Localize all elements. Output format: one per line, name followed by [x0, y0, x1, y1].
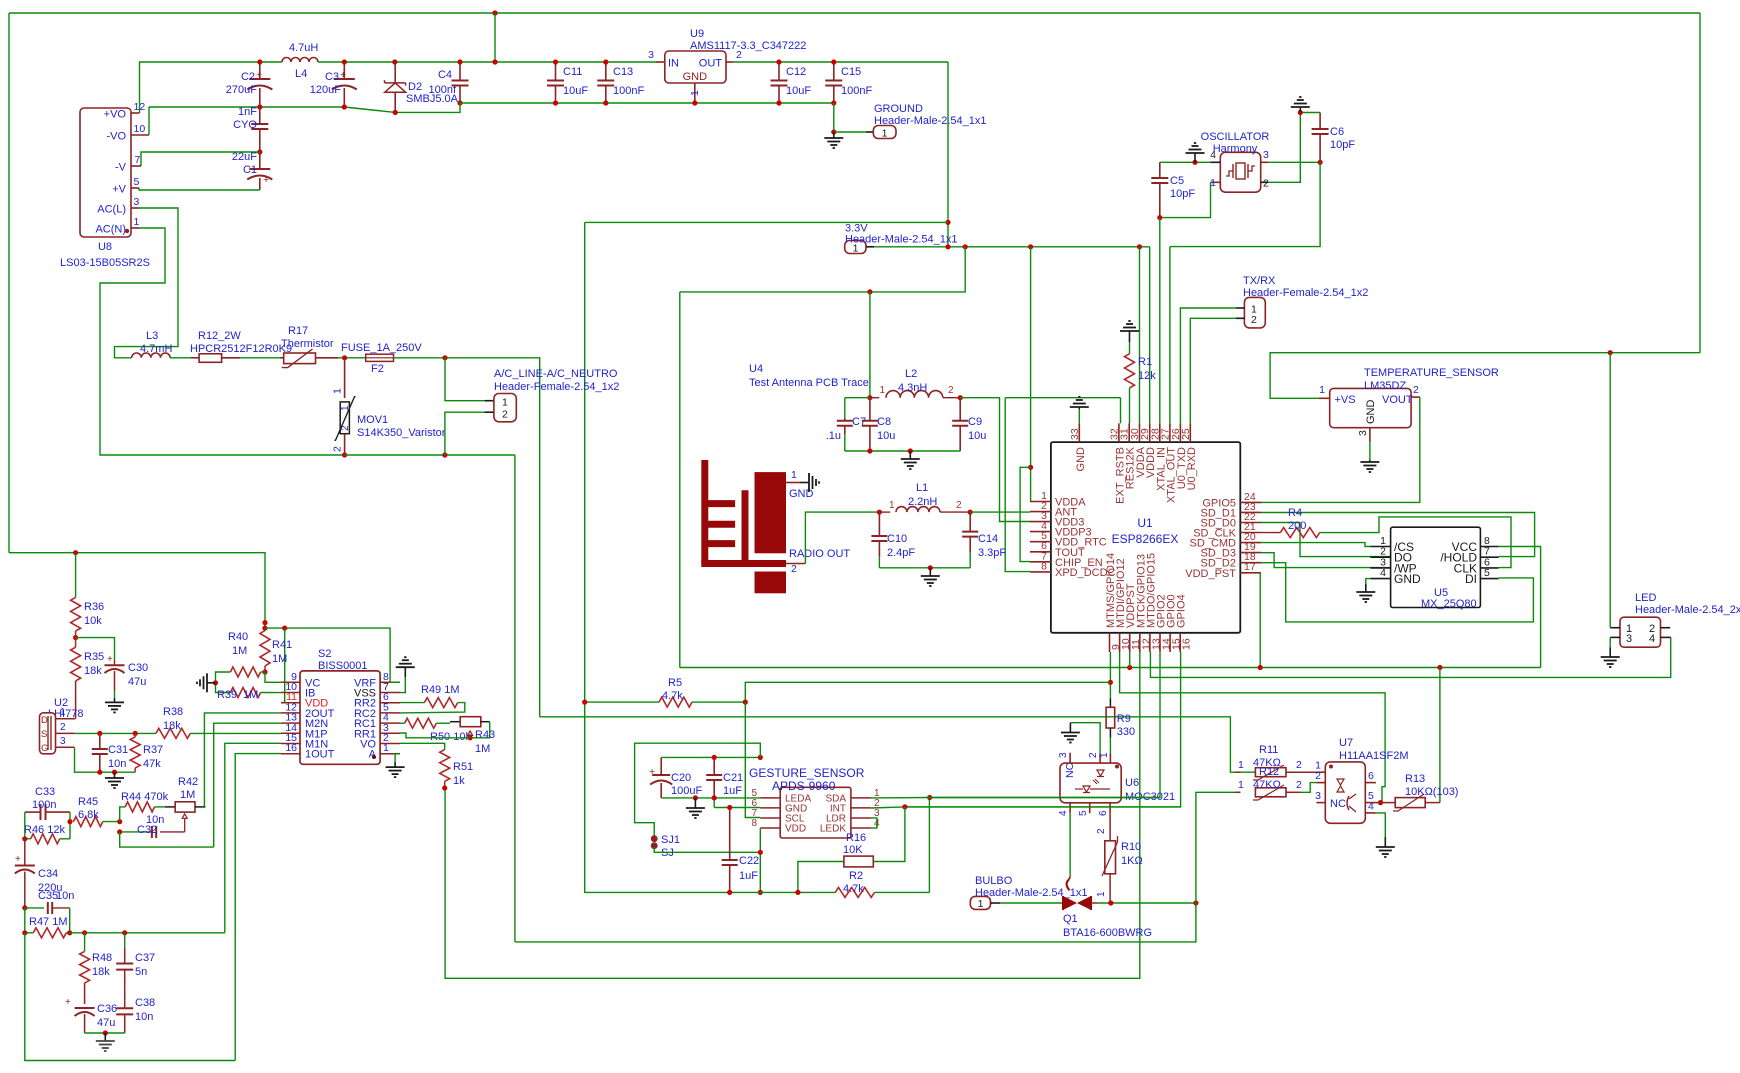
- junction C4 bottom: [457, 100, 462, 105]
- svg-text:Header-Female-2.54_1x2: Header-Female-2.54_1x2: [494, 381, 619, 393]
- svg-text:1KΩ: 1KΩ: [1121, 855, 1143, 867]
- optocoupler U6 MOC3021: [1058, 752, 1175, 816]
- capacitor C20 100uF: [649, 757, 702, 798]
- capacitor C35 10n: [25, 890, 75, 914]
- resistor R12 47KΩ: [1235, 766, 1316, 800]
- junction C12 top: [776, 59, 781, 64]
- junction L2 feed: [867, 289, 872, 294]
- svg-text:10K: 10K: [843, 844, 863, 856]
- svg-text:18k: 18k: [163, 720, 181, 732]
- wire RR1 to R43: [400, 733, 470, 738]
- ground at chip GND pin33: [1070, 397, 1089, 423]
- svg-text:R45: R45: [78, 796, 98, 808]
- svg-text:2: 2: [956, 500, 962, 511]
- header LED Header-Male-2.54_2x2: [1610, 592, 1740, 647]
- junction R37 top: [133, 731, 138, 736]
- wire L2 top rail: [869, 292, 871, 398]
- svg-text:8: 8: [751, 818, 757, 829]
- junction VDD SJ: [758, 850, 763, 855]
- chip U5 MX_25Q80: [1370, 527, 1498, 610]
- wire pin5 to R13: [1376, 802, 1395, 804]
- wire C33 R46 left link: [24, 812, 26, 839]
- wire SD_CMD to CS: [1261, 543, 1370, 547]
- wire -VO to return rail: [148, 107, 150, 135]
- wire VCC to rail A: [1499, 547, 1541, 668]
- svg-text:3: 3: [1626, 633, 1632, 645]
- svg-text:3.3pF: 3.3pF: [978, 547, 1006, 559]
- svg-text:4.7k: 4.7k: [662, 690, 683, 702]
- chip U1 ESP8266EX: [1030, 423, 1261, 652]
- ground at LM35: [1360, 442, 1379, 472]
- svg-text:R5: R5: [668, 677, 682, 689]
- svg-text:C5: C5: [1170, 175, 1184, 187]
- capacitor C34 220u: [15, 839, 63, 908]
- junction rf2 gnd: [928, 565, 933, 570]
- svg-text:+: +: [65, 997, 71, 1008]
- svg-text:3: 3: [134, 196, 140, 208]
- wire GPIO4 to INT rail: [905, 652, 1181, 807]
- junction C1 top: [257, 149, 262, 154]
- junction R51 bottom: [442, 785, 447, 790]
- svg-text:1: 1: [1319, 384, 1325, 396]
- ground at C15: [824, 132, 843, 148]
- resistor R13 10KΩ(103): [1393, 773, 1458, 811]
- wire triac to node: [1097, 902, 1196, 904]
- svg-text:GND: GND: [1365, 400, 1377, 425]
- ground at L1 filter: [921, 568, 940, 586]
- svg-text:R2: R2: [849, 870, 863, 882]
- capacitor C10 2.4pF: [871, 512, 915, 568]
- svg-text:6: 6: [1098, 810, 1109, 816]
- svg-text:TEMPERATURE_SENSOR: TEMPERATURE_SENSOR: [1364, 367, 1499, 379]
- svg-text:16: 16: [285, 742, 297, 754]
- junction C32 left: [117, 829, 122, 834]
- wire INT rail: [871, 807, 1181, 808]
- junction R10 bottom: [1108, 900, 1113, 905]
- svg-text:R49 1M: R49 1M: [421, 684, 460, 696]
- svg-text:C22: C22: [739, 855, 759, 867]
- svg-text:C20: C20: [671, 772, 691, 784]
- junction U7 pin5: [1378, 800, 1383, 805]
- resistor R10 1K thermistor-style: [1096, 813, 1143, 903]
- wire osc pin4 net: [1160, 161, 1211, 163]
- junction R40 gnd: [213, 680, 218, 685]
- svg-text:4: 4: [1368, 800, 1374, 812]
- svg-text:100nF: 100nF: [613, 85, 644, 97]
- svg-text:1: 1: [880, 385, 886, 396]
- wire XTAL_IN drop: [1159, 218, 1161, 424]
- svg-text:4: 4: [1058, 810, 1069, 816]
- junction R47 left: [22, 930, 27, 935]
- ground at U6 pin2: [1061, 723, 1080, 743]
- wire AC-L rail y718: [540, 717, 1256, 772]
- capacitor C13 100nF: [597, 62, 644, 103]
- junction top-border tap: [492, 10, 497, 15]
- svg-text:5: 5: [134, 176, 140, 188]
- svg-text:10k: 10k: [84, 615, 102, 627]
- wire SD_D1 to HOLD: [1261, 513, 1535, 557]
- svg-text:C21: C21: [723, 772, 743, 784]
- capacitor C11 10uF: [547, 62, 588, 103]
- svg-text:47u: 47u: [128, 676, 146, 688]
- junction C5 bottom XTAL_IN: [1157, 215, 1162, 220]
- junction C21 top: [712, 755, 717, 760]
- capacitor C14 3.3pF: [962, 512, 1006, 568]
- svg-text:R11: R11: [1259, 744, 1278, 756]
- svg-text:1: 1: [60, 707, 66, 718]
- wire VDDA drop x1140: [1139, 247, 1141, 424]
- svg-text:+VS: +VS: [1335, 394, 1356, 406]
- junction L2 pin2: [958, 395, 963, 400]
- resistor R49 1M: [400, 684, 465, 713]
- svg-text:5: 5: [1484, 567, 1490, 579]
- svg-text:2: 2: [791, 563, 797, 575]
- junction AC header pin2 drop: [442, 452, 447, 457]
- wire G to bottom rail: [75, 747, 136, 772]
- wire GND pin rail: [714, 807, 760, 809]
- svg-text:2.2nH: 2.2nH: [908, 496, 937, 508]
- resistor R46 12k: [24, 824, 70, 844]
- wire return rail left y107: [149, 103, 460, 112]
- svg-text:2: 2: [948, 385, 954, 396]
- svg-text:D: D: [41, 715, 48, 726]
- svg-text:10n: 10n: [56, 890, 74, 902]
- wire S row to R38: [75, 732, 156, 734]
- ground at oscillator pin4: [1186, 143, 1205, 162]
- svg-text:VDD: VDD: [785, 824, 806, 835]
- svg-text:IN: IN: [668, 58, 679, 70]
- fuse F2 FUSE_1A_250V: [341, 342, 445, 375]
- svg-text:Header-Male-2.54_2x2: Header-Male-2.54_2x2: [1635, 604, 1740, 616]
- thermistor R17: [280, 325, 338, 368]
- wire SD_D2 to DI: [1261, 563, 1533, 622]
- svg-text:C9: C9: [968, 416, 982, 428]
- wire C1 bottom to +V: [139, 188, 260, 190]
- svg-text:1: 1: [1096, 891, 1107, 897]
- capacitor C7 .1u: [826, 416, 866, 451]
- wire GPIO13 to PIR VO net: [445, 652, 1140, 978]
- svg-text:C3: C3: [325, 71, 339, 83]
- junction LEDA gnd: [693, 795, 698, 800]
- svg-text:2.4pF: 2.4pF: [887, 547, 915, 559]
- resistor R50 10k: [400, 718, 471, 743]
- svg-text:2: 2: [1096, 828, 1107, 834]
- wire C20 C21 top rail: [661, 756, 760, 758]
- ground at LED pin3: [1601, 637, 1620, 667]
- PIR sensor U2 LHI778: [40, 697, 84, 754]
- wire filter rail y62: [260, 61, 657, 63]
- junction C21 bottom: [712, 795, 717, 800]
- junction 3.3V at x965: [963, 244, 968, 249]
- svg-text:22uF: 22uF: [232, 151, 257, 163]
- junction 3.3V at x948: [945, 244, 950, 249]
- junction osc gnd tap: [1192, 160, 1197, 165]
- junction gnd rail pir: [112, 770, 117, 775]
- resistor R48 18k: [80, 933, 113, 1004]
- junction C8 bottom: [867, 448, 872, 453]
- header 3.3V Header-Male-2.54_1x1: [845, 223, 958, 255]
- wire VRF riser: [390, 681, 400, 683]
- svg-text:S14K350_Varistor: S14K350_Varistor: [357, 427, 446, 439]
- svg-text:18k: 18k: [92, 966, 110, 978]
- wire top border +VO rail: [9, 12, 1700, 14]
- junction C3 top: [342, 59, 347, 64]
- svg-text:10pF: 10pF: [1170, 188, 1195, 200]
- svg-text:2: 2: [1296, 759, 1302, 771]
- ground at gesture LEDA: [686, 798, 705, 818]
- ground at C30: [105, 698, 124, 712]
- junction C2 top: [257, 59, 262, 64]
- wire U9 out rail: [734, 61, 948, 63]
- ground at VSS: [396, 657, 415, 677]
- svg-text:C36: C36: [97, 1003, 117, 1015]
- svg-text:5: 5: [1078, 810, 1089, 816]
- junction SCL rail tap: [1108, 680, 1113, 685]
- wire M1N down: [225, 743, 281, 933]
- svg-text:12k: 12k: [1138, 370, 1156, 382]
- svg-text:R16: R16: [846, 832, 866, 844]
- wire XPD and RSTB link: [1005, 398, 1120, 572]
- wire U0_RXD to TX/RX pin2: [1190, 318, 1236, 423]
- wire 3.3V header rail y247: [874, 247, 1150, 424]
- capacitor C36 47u: [65, 997, 117, 1033]
- wire VRF link y627: [265, 628, 390, 683]
- svg-text:47KΩ: 47KΩ: [1253, 779, 1281, 791]
- wire VDD pin drop: [759, 828, 761, 892]
- junction bottom gnd: [103, 1030, 108, 1035]
- junction C3 bottom: [342, 104, 347, 109]
- svg-text:1uF: 1uF: [739, 870, 758, 882]
- resistor R9 330: [1106, 698, 1135, 753]
- svg-text:.1u: .1u: [826, 430, 841, 442]
- wire -V to C1 top: [141, 152, 260, 166]
- capacitor C12 10uF: [771, 62, 812, 103]
- solder jumper SJ1: [651, 834, 680, 859]
- junction C15 bottom: [831, 100, 836, 132]
- optocoupler U7 H11AA1SF2M: [1315, 737, 1408, 823]
- svg-text:R51: R51: [453, 761, 473, 773]
- svg-text:1: 1: [332, 388, 344, 394]
- resistor R47 1M: [25, 908, 70, 938]
- wire C32 row: [120, 831, 185, 833]
- resistor R16 10K: [798, 807, 905, 893]
- svg-text:330: 330: [1117, 726, 1135, 738]
- svg-text:VOUT: VOUT: [1382, 394, 1413, 406]
- svg-text:LS03-15B05SR2S: LS03-15B05SR2S: [60, 257, 150, 269]
- svg-text:BTA16-600BWRG: BTA16-600BWRG: [1063, 927, 1152, 939]
- svg-text:18k: 18k: [84, 665, 102, 677]
- capacitor C32 10n: [137, 814, 164, 838]
- ground at U7: [1376, 837, 1395, 857]
- junction SDA R2: [927, 795, 932, 800]
- svg-text:C33: C33: [35, 786, 55, 798]
- capacitor C5 10pF: [1151, 162, 1195, 217]
- svg-text:R35: R35: [84, 651, 104, 663]
- wire U6 pin2 to ground: [1070, 723, 1100, 754]
- junction C11 top: [553, 59, 558, 64]
- wire left border: [8, 13, 10, 553]
- svg-text:OSCILLATOR: OSCILLATOR: [1201, 131, 1270, 143]
- svg-text:C12: C12: [786, 66, 806, 78]
- svg-text:C34: C34: [38, 868, 58, 880]
- svg-text:R13: R13: [1405, 773, 1425, 785]
- svg-text:Header-Female-2.54_1x2: Header-Female-2.54_1x2: [1243, 287, 1368, 299]
- svg-text:C32: C32: [137, 824, 157, 836]
- resistor R38 18k: [156, 706, 281, 738]
- svg-text:1M: 1M: [272, 653, 287, 665]
- ground at C6: [1291, 97, 1310, 113]
- wire M2N link: [120, 832, 214, 847]
- capacitor C30 47u: [105, 654, 149, 698]
- svg-text:LEDK: LEDK: [820, 824, 846, 835]
- capacitor C9 10u: [952, 398, 986, 451]
- resistor R39 1M: [217, 688, 281, 702]
- wire M2N down: [214, 723, 281, 847]
- wire SCL drop to gesture: [745, 702, 760, 817]
- ground at C36: [96, 1033, 115, 1051]
- junction R41 R40: [262, 669, 267, 674]
- svg-text:C15: C15: [841, 66, 861, 78]
- junction R45 left: [67, 819, 72, 824]
- junction R41 top b: [262, 626, 267, 631]
- wire osc pin3 to C6: [1268, 161, 1320, 163]
- svg-text:3: 3: [60, 736, 66, 747]
- svg-text:2: 2: [1263, 178, 1269, 190]
- svg-text:R12: R12: [1259, 766, 1279, 778]
- ground at C31: [105, 772, 124, 788]
- header TX/RX Header-Female-2.54_1x2: [1236, 275, 1368, 328]
- wire left column down: [25, 933, 235, 1061]
- svg-text:47k: 47k: [143, 758, 161, 770]
- junction R5 left: [582, 700, 587, 705]
- capacitor C1 22uF: [232, 151, 272, 190]
- junction R36 R35: [73, 635, 78, 640]
- resistor R40 1M: [216, 631, 266, 693]
- svg-text:+: +: [107, 654, 113, 665]
- junction 3.3V rail west tap: [945, 220, 950, 225]
- wire C35 to R47 right: [69, 908, 71, 933]
- wire AC(N) path: [100, 228, 345, 455]
- antenna pin1 GND stub: [786, 469, 819, 500]
- svg-text:100nf: 100nf: [428, 84, 456, 96]
- junction R43 wiper: [468, 735, 473, 740]
- svg-text:R4: R4: [1288, 507, 1302, 519]
- wire C33 R46 right link: [69, 812, 71, 839]
- svg-text:L2: L2: [905, 368, 917, 380]
- wire VDD rail y893: [585, 798, 930, 893]
- junction D2 bottom: [393, 110, 398, 115]
- svg-text:U6: U6: [1125, 777, 1139, 789]
- trimmer R43 1M: [450, 717, 495, 755]
- capacitor C8 10u: [862, 398, 895, 451]
- resistor R36 10k: [71, 597, 105, 637]
- svg-text:R12_2W: R12_2W: [198, 330, 241, 342]
- wire osc pin1 to C5: [1160, 182, 1211, 217]
- svg-text:GROUND: GROUND: [874, 103, 923, 115]
- junction C2 bottom: [257, 104, 262, 109]
- wire row 933: [70, 932, 225, 934]
- svg-text:F2: F2: [371, 363, 384, 375]
- svg-text:2: 2: [1296, 779, 1302, 791]
- wire rail A 3.3V: [680, 667, 1541, 669]
- antenna U4 Test Antenna PCB Trace: [701, 363, 869, 593]
- junction fuse-MOV: [342, 355, 347, 360]
- svg-text:U4: U4: [749, 363, 763, 375]
- wire 1OUT down: [235, 754, 281, 1061]
- svg-text:47u: 47u: [97, 1017, 115, 1029]
- wire C7 branch: [845, 398, 870, 418]
- junction C37 top: [122, 930, 127, 935]
- wire SJ1 to VDD net: [654, 847, 760, 852]
- wire C7 C8 C9 bottom rail: [845, 450, 960, 452]
- regulator U9 AMS1117-3.3: [648, 28, 806, 103]
- svg-text:200: 200: [1288, 520, 1306, 532]
- wire L3 to R12: [170, 357, 191, 359]
- svg-text:2: 2: [502, 409, 508, 421]
- wire return rail right y103: [460, 102, 834, 104]
- svg-text:HPCR2512F12R0K9: HPCR2512F12R0K9: [190, 343, 292, 355]
- svg-text:AC(N): AC(N): [95, 224, 126, 236]
- svg-text:L3: L3: [146, 330, 158, 342]
- wire to C30: [76, 638, 115, 660]
- svg-text:C10: C10: [887, 533, 907, 545]
- wire SCL rail y682: [745, 682, 1110, 702]
- capacitor C2 270uF: [226, 62, 273, 107]
- junction LED pin1 tap: [1608, 350, 1613, 355]
- svg-text:R37: R37: [143, 744, 163, 756]
- wire R12 to R17: [240, 357, 280, 359]
- inductor L1 2.2nH: [879, 482, 970, 512]
- junction C22 bottom: [727, 890, 732, 895]
- capacitor C31 10n: [92, 733, 128, 772]
- svg-text:C11: C11: [563, 66, 582, 78]
- svg-text:ESP8266EX: ESP8266EX: [1112, 532, 1179, 546]
- svg-text:+: +: [15, 854, 21, 865]
- svg-text:LED: LED: [1635, 592, 1656, 604]
- svg-text:2: 2: [60, 722, 66, 733]
- wire VOUT to GPIO5: [1261, 397, 1420, 502]
- inductor L4 4.7uH: [282, 42, 318, 80]
- svg-text:C31: C31: [108, 744, 128, 756]
- wire U0_TXD to TX/RX pin1: [1180, 308, 1236, 423]
- varistor MOV1 S14K350: [332, 358, 446, 455]
- header BULBO Header-Male-2.54_1x1: [970, 875, 1087, 910]
- wire SD_D0 to DO: [1261, 523, 1391, 557]
- wire LEDA gnd rail: [661, 798, 760, 808]
- svg-text:U7: U7: [1339, 737, 1353, 749]
- svg-text:C8: C8: [877, 416, 891, 428]
- wire bulbo to triac: [1000, 902, 1063, 904]
- wire XTAL_OUT path: [1170, 162, 1320, 423]
- resistor R51 1k: [440, 750, 473, 788]
- svg-text:4.7mH: 4.7mH: [140, 343, 172, 355]
- svg-text:DI: DI: [1465, 572, 1477, 586]
- svg-text:SJ1: SJ1: [661, 834, 680, 846]
- svg-text:1: 1: [383, 742, 389, 754]
- capacitor C37 5n: [116, 933, 155, 989]
- wire to GROUND header: [834, 131, 866, 133]
- svg-text:FUSE_1A_250V: FUSE_1A_250V: [341, 342, 422, 354]
- junction INT R16: [902, 804, 907, 809]
- svg-text:R40: R40: [228, 631, 248, 643]
- svg-text:3: 3: [1315, 790, 1321, 802]
- ground at A pin: [386, 762, 405, 777]
- header A/C_LINE-A/C_NEUTRO Header-Female-2.54_1x2: [445, 358, 619, 455]
- resistor R35 18k: [71, 638, 105, 719]
- wire GPIO2 to SDA rail: [930, 652, 1160, 798]
- ground at rf filter: [901, 451, 920, 469]
- oscillator OSCILLATOR Harmony: [1201, 131, 1270, 192]
